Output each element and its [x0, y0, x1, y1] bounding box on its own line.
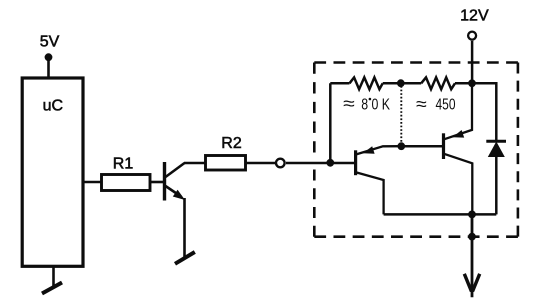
wire uC to R1	[83, 181, 102, 184]
svg-text:uC: uC	[43, 97, 63, 114]
node output on box edge dot	[468, 233, 476, 241]
transistor Q2 collector	[356, 172, 383, 214]
wire R4 to 12V node	[455, 82, 472, 85]
wire Q1 emitter down	[183, 198, 186, 257]
transistor Q3 base bar	[442, 133, 445, 159]
dashed module box left edge lower	[313, 170, 316, 237]
svg-text:R2: R2	[221, 135, 242, 152]
diode D1 cathode bar	[486, 140, 506, 143]
transistor Q3 collector	[444, 154, 472, 215]
wire input junction up to rail	[329, 83, 332, 163]
wire 12V to rail	[471, 41, 474, 84]
wire Q1 collector to R2	[184, 162, 206, 165]
wire diode down	[495, 155, 498, 214]
wire bottom rail	[384, 213, 497, 216]
resistor R3 decimal dot	[369, 98, 372, 101]
svg-text:R1: R1	[113, 156, 134, 173]
diode D1 triangle	[488, 142, 505, 158]
svg-text:12V: 12V	[460, 8, 489, 25]
svg-text:≈: ≈	[416, 94, 427, 114]
node input junction dot	[326, 159, 334, 167]
transistor Q2 emitter with arrow	[356, 146, 401, 154]
transistor Q1 base bar	[163, 162, 166, 201]
node Q2 emitter junction dot	[397, 142, 405, 150]
ground at Q1 emitter	[175, 252, 195, 264]
ground under uC	[42, 283, 62, 294]
terminal circle 12V	[468, 32, 476, 40]
svg-text:5V: 5V	[40, 33, 60, 50]
svg-text:450: 450	[436, 97, 456, 114]
dashed module box top edge	[314, 61, 518, 64]
svg-text:≈: ≈	[343, 93, 355, 113]
node 12V rail junction dot	[468, 79, 476, 87]
uC block U1	[22, 78, 83, 266]
wire rail node to R4	[401, 82, 421, 85]
wire uC to ground	[52, 266, 55, 288]
wire top rail left	[330, 82, 349, 85]
resistor R1	[102, 175, 151, 191]
wire Q2 node to Q3 base	[401, 145, 442, 148]
wire R2 to terminal	[246, 162, 276, 165]
node rail junction dot	[397, 79, 405, 87]
dotted link wire	[400, 86, 402, 146]
wire R1 to Q1 base	[150, 181, 164, 184]
wire output down	[471, 214, 474, 297]
node 5V junction dot	[45, 53, 53, 61]
dashed module box right edge	[517, 63, 520, 237]
dashed module box left edge upper	[313, 63, 316, 153]
resistor R2	[206, 156, 246, 171]
resistor R3 zigzag 8.0K	[350, 77, 383, 89]
terminal circle input	[276, 159, 285, 168]
transistor Q2 base bar	[354, 150, 357, 175]
dashed module box bottom edge	[314, 235, 518, 238]
transistor Q1 emitter with arrow	[166, 186, 182, 197]
transistor Q3 emitter with arrow	[444, 83, 472, 139]
wire 5V to uC	[47, 57, 50, 76]
resistor R4 zigzag 450	[421, 77, 455, 89]
wire rail to diode corner	[472, 83, 496, 141]
node output junction dot	[468, 211, 476, 219]
wire terminal to Q2 base	[286, 162, 355, 165]
output arrow barbs	[464, 274, 471, 292]
svg-text:8 0 K: 8 0 K	[361, 97, 390, 114]
transistor Q1 collector	[166, 163, 185, 177]
wire rail R3 to node	[383, 82, 402, 85]
